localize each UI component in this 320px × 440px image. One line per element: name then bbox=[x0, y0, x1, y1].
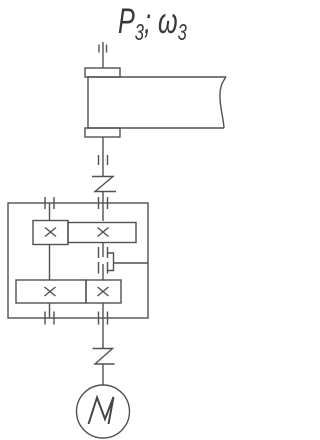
svg-text:P3; ω3: P3; ω3 bbox=[118, 2, 187, 46]
